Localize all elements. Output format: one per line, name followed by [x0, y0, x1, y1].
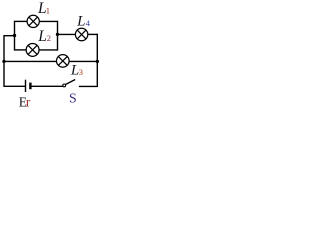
wire L1 branch right — [39, 20, 57, 22]
wire L2 branch left — [15, 49, 27, 51]
lamp L1 — [27, 15, 39, 27]
lamp L2 — [26, 43, 39, 56]
wire left junction to left rail — [4, 35, 15, 37]
node A left rail junction — [2, 60, 5, 63]
svg-text:S: S — [69, 91, 77, 106]
wire left inner vertical (L1 to L2) — [14, 21, 16, 51]
battery Er short plate — [29, 83, 31, 90]
node right junction — [56, 33, 59, 36]
lamp L3 — [57, 55, 70, 68]
wire L3 branch right — [69, 60, 97, 62]
svg-text:L: L — [37, 28, 47, 45]
svg-text:r: r — [26, 94, 31, 107]
wire switch to bottom right — [79, 85, 98, 87]
svg-text:L: L — [76, 14, 85, 30]
wire left rail — [3, 35, 5, 87]
battery Er long plate — [25, 80, 27, 92]
svg-text:3: 3 — [79, 67, 83, 77]
wire right inner vertical (L1 to L2) — [57, 21, 59, 51]
wire middle row to L4 — [58, 33, 76, 35]
switch S lever — [66, 80, 76, 85]
switch S pivot — [63, 84, 66, 87]
wire L2 branch right — [39, 49, 58, 51]
wire right rail — [96, 34, 98, 87]
lamp L4 — [75, 28, 87, 40]
svg-text:1: 1 — [46, 6, 50, 16]
node left junction — [13, 34, 16, 37]
wire L3 branch left — [4, 60, 57, 62]
node right rail junction — [96, 60, 99, 63]
wire bottom left to battery — [4, 85, 26, 87]
wire L1 branch left — [15, 20, 28, 22]
wire L4 right — [88, 33, 98, 35]
svg-text:2: 2 — [47, 33, 51, 43]
svg-text:4: 4 — [86, 18, 91, 28]
wire battery to switch — [30, 85, 62, 87]
